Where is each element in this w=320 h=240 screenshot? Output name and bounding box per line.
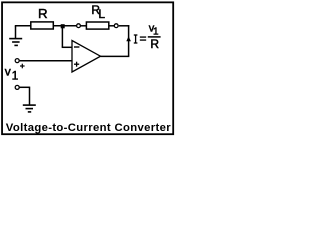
terminal circle (right of RL) — [114, 24, 118, 28]
wire: vertical down right side — [128, 25, 130, 56]
plus sign at source — [20, 64, 25, 69]
wire: junction down to inverting input — [61, 26, 63, 48]
wire: horizontal into inverting input — [62, 46, 72, 48]
svg-text:v: v — [5, 64, 11, 78]
svg-text:1: 1 — [153, 27, 159, 38]
svg-text:=: = — [140, 32, 147, 46]
label v1 — [5, 64, 19, 82]
wire: resistor R to node circle — [53, 25, 76, 27]
svg-text:R: R — [38, 6, 48, 21]
svg-text:R: R — [150, 37, 159, 51]
terminal circle v1 minus — [15, 85, 19, 89]
wire: right circle to top-right corner — [119, 25, 130, 27]
svg-text:1: 1 — [12, 69, 19, 83]
op-amp U1 — [72, 41, 101, 73]
op-amp plus sign — [74, 62, 79, 67]
frame border — [2, 2, 173, 134]
terminal circle (left of RL) — [77, 24, 81, 28]
svg-text:Voltage-to-Current Converter: Voltage-to-Current Converter — [6, 122, 172, 134]
wire: ground to resistor R — [15, 25, 31, 27]
label I = v1/R — [134, 23, 161, 51]
ground (top-left) — [9, 26, 22, 46]
terminal circle v1 plus — [15, 59, 19, 63]
current arrow (up) — [126, 36, 131, 41]
junction dot — [61, 24, 65, 28]
wire: v1 source to non-inverting input — [20, 60, 72, 62]
op-amp minus sign — [74, 46, 79, 48]
wire: RL to right circle — [109, 25, 115, 27]
label RL — [91, 3, 105, 21]
wire: op-amp output — [101, 55, 130, 57]
svg-text:L: L — [98, 7, 105, 21]
resistor R — [31, 22, 54, 29]
resistor RL — [86, 22, 108, 29]
wire: circle to RL — [81, 25, 87, 27]
wire: lower terminal to ground — [19, 86, 29, 88]
ground (bottom) — [23, 105, 36, 112]
